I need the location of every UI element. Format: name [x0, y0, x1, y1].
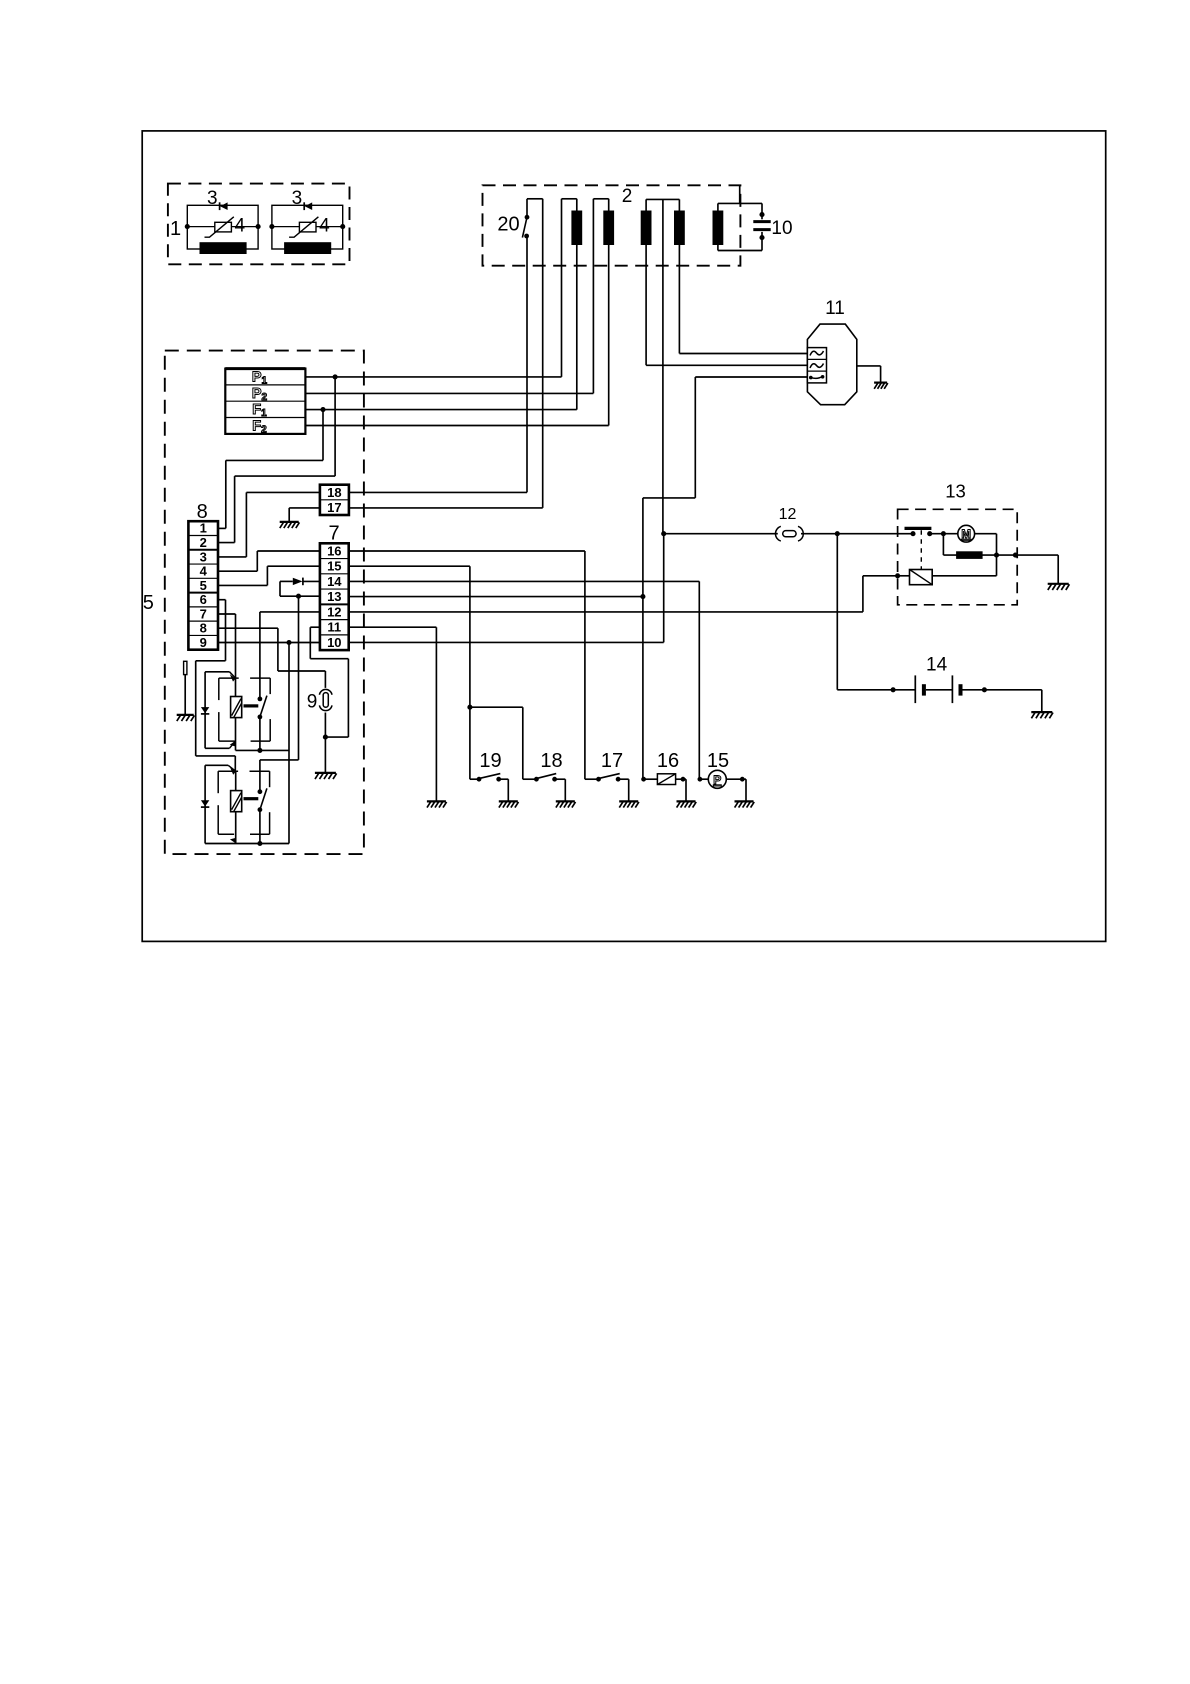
svg-text:12: 12: [779, 506, 797, 523]
svg-text:15: 15: [707, 750, 729, 772]
svg-text:10: 10: [327, 635, 341, 650]
svg-text:2: 2: [200, 535, 207, 550]
svg-text:13: 13: [327, 589, 341, 604]
svg-text:5: 5: [200, 578, 207, 593]
svg-text:18: 18: [540, 750, 562, 772]
svg-text:3: 3: [207, 188, 218, 209]
svg-text:7: 7: [328, 523, 339, 545]
svg-text:16: 16: [657, 750, 679, 772]
svg-text:17: 17: [601, 750, 623, 772]
svg-text:8: 8: [200, 621, 207, 636]
svg-text:4: 4: [319, 216, 330, 237]
svg-text:10: 10: [771, 218, 792, 239]
svg-text:13: 13: [945, 481, 966, 502]
svg-text:19: 19: [479, 750, 501, 772]
svg-text:14: 14: [327, 574, 342, 589]
svg-text:4: 4: [200, 564, 208, 579]
svg-text:17: 17: [327, 500, 341, 515]
svg-text:16: 16: [327, 543, 341, 558]
svg-text:5: 5: [143, 592, 154, 614]
svg-text:14: 14: [926, 655, 948, 676]
svg-text:7: 7: [200, 606, 207, 621]
svg-text:1: 1: [170, 218, 181, 240]
svg-text:11: 11: [327, 620, 341, 635]
svg-text:2: 2: [622, 186, 633, 207]
svg-text:4: 4: [235, 216, 246, 237]
svg-text:11: 11: [825, 298, 845, 319]
svg-text:P: P: [713, 773, 721, 787]
svg-text:15: 15: [327, 559, 341, 574]
svg-text:6: 6: [200, 592, 207, 607]
svg-text:9: 9: [200, 635, 207, 650]
svg-text:3: 3: [200, 549, 207, 564]
svg-text:8: 8: [197, 501, 208, 523]
svg-text:M: M: [961, 529, 971, 541]
svg-text:9: 9: [307, 692, 318, 713]
svg-text:3: 3: [292, 188, 303, 209]
svg-text:12: 12: [327, 604, 341, 619]
svg-text:20: 20: [497, 214, 519, 236]
svg-text:18: 18: [327, 485, 341, 500]
